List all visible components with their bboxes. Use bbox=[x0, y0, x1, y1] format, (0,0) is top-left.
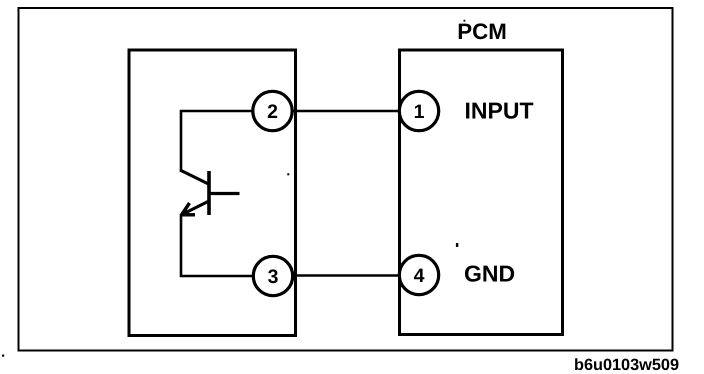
svg-text:1: 1 bbox=[414, 101, 425, 123]
svg-text:INPUT: INPUT bbox=[465, 98, 534, 124]
transistor Q1 bbox=[180, 170, 240, 215]
wire pin2 to pin1 bbox=[290, 110, 401, 113]
wire transistor emitter to pin3 bbox=[181, 214, 255, 276]
PCM module box bbox=[400, 50, 563, 335]
svg-text:b6u0103w509: b6u0103w509 bbox=[574, 356, 679, 374]
wire pin2 to transistor collector bbox=[181, 111, 255, 171]
pin 1 bbox=[399, 91, 438, 130]
svg-text:4: 4 bbox=[414, 265, 425, 287]
pin 4 bbox=[399, 255, 438, 294]
svg-text:2: 2 bbox=[267, 101, 278, 123]
svg-text:PCM: PCM bbox=[457, 19, 507, 44]
wire pin3 to pin4 bbox=[290, 274, 401, 277]
svg-text:GND: GND bbox=[464, 261, 515, 287]
component box (transistor device) bbox=[129, 50, 296, 336]
pin 3 bbox=[253, 256, 292, 295]
pin 2 bbox=[253, 91, 292, 130]
svg-text:3: 3 bbox=[268, 266, 279, 288]
